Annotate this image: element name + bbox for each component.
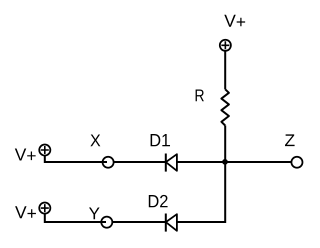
wire: node X to diode D1 cathode	[114, 161, 166, 163]
node Y (open circle)	[101, 217, 112, 228]
wire: node Y to diode D2 cathode	[113, 221, 166, 223]
label Z	[285, 134, 295, 146]
terminal Z (open circle)	[291, 157, 302, 168]
power terminal V+ top (circled plus)	[220, 40, 231, 51]
wire: junction to terminal Z	[225, 161, 292, 163]
junction dot	[222, 159, 228, 165]
node X (open circle)	[103, 157, 114, 168]
power terminal V+ left-top (circled plus)	[39, 144, 50, 155]
label V+ (top supply)	[224, 15, 245, 27]
wire: V+ top terminal to resistor R	[224, 51, 226, 90]
label Y	[89, 208, 100, 220]
wire: D1 anode to junction	[177, 161, 225, 163]
label V+ (left, X row)	[15, 149, 36, 161]
resistor R	[221, 89, 229, 125]
power terminal V+ left-bottom (circled plus)	[39, 203, 50, 214]
diode D2 (cathode bar left, triangle pointing left)	[166, 214, 177, 232]
label D1	[151, 134, 170, 146]
wire: D2 anode right and up to junction	[177, 162, 225, 222]
label D2	[149, 195, 168, 207]
label R	[196, 90, 204, 102]
wire: resistor R bottom to junction	[224, 126, 226, 163]
wire: V+ left-bottom terminal down and right to node Y	[45, 213, 106, 222]
diode D1 (cathode bar left, triangle pointing left)	[166, 154, 177, 172]
label X	[90, 135, 100, 147]
label V+ (left, Y row)	[15, 206, 36, 218]
wire: V+ left-top terminal down and right to node X	[45, 155, 107, 162]
